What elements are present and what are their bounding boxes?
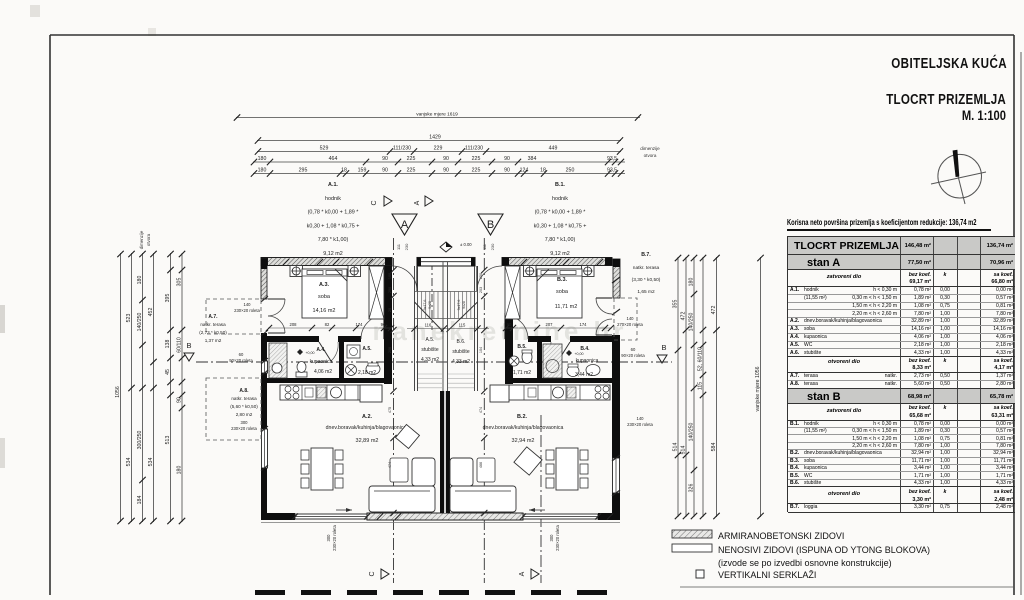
- svg-text:9x17,6: 9x17,6: [457, 300, 461, 311]
- svg-text:270×20 roleta: 270×20 roleta: [617, 322, 643, 327]
- opening ticks top wall B: [521, 259, 527, 265]
- window pier boxes with markers top wall A: [290, 266, 303, 277]
- terrace door B.7 double leaf: [596, 297, 612, 299]
- svg-text:7,80 * k1,00): 7,80 * k1,00): [545, 237, 576, 243]
- door into bath A.4: [319, 342, 331, 361]
- svg-text:523: 523: [126, 314, 132, 323]
- svg-text:+0,00: +0,00: [305, 351, 314, 355]
- svg-text:11,71 m2: 11,71 m2: [555, 304, 578, 310]
- svg-text:natkr. terasa: natkr. terasa: [231, 396, 257, 401]
- wall A.4/A.5 divider: [339, 342, 344, 382]
- svg-text:18: 18: [540, 167, 546, 173]
- svg-text:138: 138: [165, 340, 171, 349]
- svg-text:9,12 m2: 9,12 m2: [323, 251, 342, 257]
- svg-text:k0,30 + 1,08 * k0,75 +: k0,30 + 1,08 * k0,75 +: [534, 223, 587, 229]
- svg-text:B.2.: B.2.: [517, 414, 528, 420]
- left wall segments: [261, 259, 267, 299]
- svg-text:A.7.: A.7.: [208, 314, 218, 320]
- svg-text:534: 534: [126, 458, 132, 467]
- wardrobe A: [369, 266, 384, 319]
- window left wall bathroom: [262, 361, 268, 373]
- svg-text:60: 60: [631, 347, 636, 352]
- stair middle spine wall: [442, 262, 444, 391]
- svg-text:2,18 m2: 2,18 m2: [358, 370, 376, 376]
- svg-text:1056: 1056: [115, 386, 121, 398]
- svg-text:111/230: 111/230: [465, 145, 483, 151]
- svg-text:stubište: stubište: [452, 349, 469, 355]
- svg-text:90: 90: [504, 167, 510, 173]
- svg-text:hodnik: hodnik: [325, 196, 341, 202]
- svg-text:93,5: 93,5: [607, 156, 617, 162]
- title TLOCRT PRIZEMLJA: [886, 91, 1006, 108]
- svg-text:449: 449: [549, 145, 558, 151]
- terrace A.8 dashed outline: [206, 378, 261, 440]
- svg-text:140/250: 140/250: [689, 313, 695, 332]
- svg-text:466: 466: [479, 462, 483, 468]
- svg-text:250: 250: [479, 273, 483, 279]
- svg-text:90: 90: [443, 156, 449, 162]
- bottom wall concrete hatched: [367, 513, 523, 520]
- svg-text:90: 90: [382, 167, 388, 173]
- svg-text:384: 384: [528, 156, 537, 162]
- terrace door A.7 double leaf: [268, 298, 285, 300]
- bottom heavy dashed bar (next drawing cut): [255, 590, 618, 595]
- svg-text:395: 395: [165, 294, 171, 303]
- terrace A.7 dashed outline: [206, 299, 261, 334]
- toilet A.5: [366, 364, 380, 375]
- svg-text:A: A: [414, 200, 421, 205]
- svg-text:514: 514: [681, 446, 687, 455]
- bottom wall: [261, 513, 295, 520]
- svg-text:230: 230: [404, 243, 409, 250]
- svg-text:174: 174: [580, 322, 588, 327]
- svg-text:206: 206: [388, 347, 392, 353]
- svg-text:dnev.boravak/kuhinja/blagovaon: dnev.boravak/kuhinja/blagovaonica: [326, 425, 407, 431]
- svg-text:otvora: otvora: [644, 153, 657, 158]
- svg-text:230×20 roleta: 230×20 roleta: [332, 524, 337, 550]
- legend underline: [680, 586, 1014, 588]
- svg-text:B: B: [186, 341, 191, 350]
- svg-text:326: 326: [689, 484, 695, 493]
- washbasin A.5: [346, 365, 357, 376]
- washbasin A.4: [272, 363, 282, 373]
- compass north arrow: [931, 150, 986, 204]
- svg-text:4,06 m2: 4,06 m2: [314, 369, 332, 375]
- svg-text:472: 472: [711, 306, 717, 315]
- svg-text:90: 90: [507, 322, 512, 327]
- svg-text:174: 174: [356, 322, 364, 327]
- top wall unit B (ytong hatched): [502, 258, 612, 266]
- svg-text:207: 207: [546, 322, 554, 327]
- svg-text:(3,30 * k0,50): (3,30 * k0,50): [632, 277, 661, 283]
- svg-text:230: 230: [490, 243, 495, 250]
- svg-text:vanjske mjere 1056: vanjske mjere 1056: [755, 366, 761, 411]
- svg-text:90: 90: [177, 397, 183, 403]
- svg-text:300: 300: [326, 534, 331, 542]
- centre axis porch: [431, 262, 433, 330]
- legend swatch vertikalni serklazi: [696, 570, 704, 578]
- dimension line 180/464/90/225/90/225/90/384: [253, 161, 625, 163]
- svg-text:dnev.boravak/kuhinja/blagovaon: dnev.boravak/kuhinja/blagovaonica: [483, 425, 564, 431]
- svg-text:1,65 m2: 1,65 m2: [637, 289, 655, 295]
- svg-text:A.5.: A.5.: [362, 346, 372, 352]
- window left wall living: [262, 429, 268, 468]
- svg-text:90: 90: [504, 156, 510, 162]
- korisna neto headline: [787, 217, 991, 231]
- svg-text:(0,78 * k0,00 + 1,89 *: (0,78 * k0,00 + 1,89 *: [308, 210, 360, 216]
- window right wall living: [613, 458, 620, 493]
- interior wall B soba/bath: [528, 336, 551, 342]
- svg-text:dimenzije: dimenzije: [640, 146, 660, 151]
- bottom sliding window B: [523, 514, 598, 519]
- bathroom bottom wall B: [505, 378, 612, 383]
- ticks along section verticals: [390, 267, 396, 273]
- sofa A: [369, 486, 435, 512]
- svg-text:A: A: [401, 219, 409, 231]
- svg-text:90×20 roleta: 90×20 roleta: [229, 358, 253, 363]
- svg-text:180: 180: [137, 276, 143, 285]
- level marker A.4: [297, 349, 303, 355]
- legend swatch nenosivi: [672, 544, 712, 552]
- wall rooms/corridor A vertical: [384, 266, 392, 384]
- shower B (centre, dotted): [543, 344, 562, 378]
- page frame border: [50, 34, 1014, 36]
- svg-text:472: 472: [681, 312, 687, 321]
- sofa B: [450, 486, 516, 512]
- level marker B.4: [566, 350, 572, 356]
- door soba B (from hodnik): [504, 313, 506, 339]
- svg-text:230×20 roleta: 230×20 roleta: [231, 426, 257, 431]
- top wall unit A (ytong hatched): [261, 258, 392, 266]
- svg-text:(0,78 * k0,00 + 1,89 *: (0,78 * k0,00 + 1,89 *: [535, 210, 587, 216]
- interior dim row B: [505, 327, 612, 329]
- dimension line: vanjske mjere 1619: [236, 117, 640, 119]
- entrance door B: [476, 266, 478, 291]
- stair lower faint treads: [418, 374, 474, 388]
- svg-text:300: 300: [549, 534, 554, 542]
- svg-text:9x17,6: 9x17,6: [423, 300, 427, 311]
- svg-text:82: 82: [325, 322, 330, 327]
- svg-text:k0,30 + 1,08 * k0,75 +: k0,30 + 1,08 * k0,75 +: [307, 223, 360, 229]
- svg-text:A: A: [519, 571, 526, 576]
- svg-text:natkr. terasa: natkr. terasa: [633, 265, 660, 271]
- svg-text:140/250: 140/250: [689, 423, 695, 442]
- svg-text:180: 180: [177, 466, 183, 475]
- dimension line 1429: [257, 140, 621, 142]
- wardrobe B: [505, 266, 520, 319]
- svg-text:116: 116: [425, 323, 432, 328]
- svg-text:225: 225: [407, 167, 416, 173]
- svg-text:180: 180: [258, 156, 267, 162]
- title M 1:100: [962, 108, 1006, 123]
- svg-text:dimenzije: dimenzije: [139, 230, 144, 249]
- svg-text:230×20 roleta: 230×20 roleta: [234, 308, 260, 313]
- svg-text:natkr. terasa: natkr. terasa: [200, 322, 226, 327]
- bathroom bottom wall A: [267, 378, 392, 383]
- svg-text:159: 159: [358, 167, 367, 173]
- svg-text:140: 140: [627, 316, 635, 321]
- svg-text:18: 18: [341, 167, 347, 173]
- svg-text:529: 529: [320, 145, 329, 151]
- section triangle A: [392, 214, 417, 235]
- washer box A.5: [347, 345, 360, 358]
- kitchen counter B: [509, 385, 610, 400]
- svg-text:7,80 * k1,00): 7,80 * k1,00): [318, 237, 349, 243]
- svg-text:90: 90: [443, 167, 449, 173]
- svg-text:B.3.: B.3.: [557, 277, 568, 283]
- svg-text:534: 534: [148, 458, 154, 467]
- bed A.3: [302, 269, 347, 318]
- svg-text:1,71 m2: 1,71 m2: [513, 370, 531, 376]
- svg-text:474: 474: [479, 407, 483, 413]
- section line A vertical: [483, 238, 485, 583]
- door into bath B.4: [558, 342, 570, 361]
- svg-text:60/110: 60/110: [177, 337, 183, 353]
- svg-text:A.1.: A.1.: [328, 182, 338, 188]
- washbasin B.5: [509, 356, 519, 366]
- svg-text:208: 208: [290, 322, 298, 327]
- svg-text:B: B: [487, 219, 494, 231]
- svg-text:180: 180: [689, 278, 695, 287]
- party wall between units: [440, 391, 450, 513]
- toilet B.4: [567, 366, 579, 377]
- bottom sliding window A: [295, 514, 367, 519]
- svg-text:(2,73 * k0,50): (2,73 * k0,50): [199, 330, 227, 335]
- svg-text:soba: soba: [556, 289, 569, 295]
- svg-text:B.5.: B.5.: [517, 344, 527, 350]
- svg-text:A.3.: A.3.: [319, 282, 330, 288]
- toilet A.4: [296, 372, 307, 377]
- svg-text:A.4.: A.4.: [316, 347, 326, 353]
- svg-text:111/230: 111/230: [393, 145, 411, 151]
- wall rooms/corridor B vertical: [505, 266, 513, 384]
- opening ticks right wall: [612, 277, 620, 283]
- svg-text:stubište: stubište: [421, 347, 438, 353]
- svg-text:115: 115: [698, 382, 704, 390]
- svg-text:300: 300: [241, 420, 249, 425]
- svg-text:vanjske mjere 1619: vanjske mjere 1619: [416, 111, 458, 117]
- svg-text:305: 305: [177, 278, 183, 287]
- svg-text:250: 250: [566, 167, 575, 173]
- door soba A (from hodnik): [383, 313, 385, 339]
- svg-text:124: 124: [520, 167, 529, 173]
- stair dim line mid: [407, 328, 489, 330]
- svg-text:B.4.: B.4.: [580, 346, 590, 352]
- kitchen counter A: [280, 385, 382, 400]
- dining table A: [311, 448, 333, 490]
- svg-text:111: 111: [396, 243, 401, 250]
- svg-text:9x28: 9x28: [462, 301, 466, 309]
- svg-text:184: 184: [137, 496, 143, 505]
- svg-text:225: 225: [407, 156, 416, 162]
- interior dim row A: [268, 327, 392, 329]
- stairwell east wall (thin): [474, 266, 476, 391]
- stair treads band (vertical risers): [418, 292, 471, 319]
- svg-text:140: 140: [637, 416, 645, 421]
- dimension line 180/295/18/159/...: [253, 173, 625, 175]
- entrance door A: [416, 266, 418, 291]
- svg-text:452: 452: [148, 308, 154, 317]
- svg-text:104: 104: [479, 347, 483, 353]
- svg-text:514: 514: [673, 443, 679, 452]
- armchair tilted A: [396, 425, 420, 449]
- svg-text:B.7.: B.7.: [641, 252, 651, 258]
- svg-text:kupaonica: kupaonica: [576, 358, 599, 364]
- svg-text:2,80 m2: 2,80 m2: [236, 412, 253, 417]
- svg-text:otvora: otvora: [146, 233, 151, 246]
- svg-text:90: 90: [381, 322, 386, 327]
- stairwell west wall (thin): [414, 266, 416, 391]
- opening ticks bottom wall: [292, 513, 298, 519]
- svg-text:kupaonica: kupaonica: [310, 359, 333, 365]
- svg-text:A.8.: A.8.: [239, 388, 249, 394]
- title OBITELJSKA KUCA: [891, 55, 1007, 72]
- svg-text:60: 60: [239, 352, 244, 357]
- svg-text:9x28: 9x28: [428, 301, 432, 309]
- svg-text:(5,60 * k0,50): (5,60 * k0,50): [230, 404, 258, 409]
- svg-text:475: 475: [388, 407, 392, 413]
- svg-text:OBITELJSKA KUĆA: OBITELJSKA KUĆA: [891, 55, 1007, 72]
- svg-text:300/250: 300/250: [137, 431, 143, 450]
- svg-text:225: 225: [472, 156, 481, 162]
- opening ticks left wall: [261, 296, 268, 302]
- terrace B.7 dashed outline: [614, 298, 637, 340]
- svg-text:355: 355: [673, 300, 679, 309]
- svg-text:A.5.: A.5.: [426, 337, 435, 343]
- svg-text:52, 60/110: 52, 60/110: [698, 347, 704, 371]
- svg-text:140/250: 140/250: [137, 313, 143, 332]
- sliding door arrow A: [336, 509, 352, 511]
- interior wall A soba/bath: [267, 336, 319, 342]
- svg-text:93,5: 93,5: [607, 167, 617, 173]
- shower A.4: [269, 343, 287, 378]
- dining table B: [556, 448, 578, 490]
- svg-text:32,94 m2: 32,94 m2: [512, 438, 535, 444]
- svg-text:20: 20: [388, 308, 392, 312]
- section line C vertical: [393, 238, 395, 583]
- washbasin B.4: [586, 365, 600, 376]
- svg-text:230×20 roleta: 230×20 roleta: [555, 524, 560, 550]
- section line B horizontal: [196, 361, 672, 363]
- right dimension lines cluster: [677, 257, 679, 517]
- toilet B.5: [522, 351, 532, 364]
- svg-text:584: 584: [711, 443, 717, 452]
- svg-text:225: 225: [472, 167, 481, 173]
- svg-text:474: 474: [388, 462, 392, 468]
- level marker 0.00: [440, 242, 452, 252]
- svg-text:1,37 m2: 1,37 m2: [205, 338, 222, 343]
- svg-text:B.6.: B.6.: [457, 339, 466, 345]
- svg-text:45: 45: [165, 369, 171, 375]
- svg-text:M. 1:100: M. 1:100: [962, 108, 1006, 123]
- svg-text:140: 140: [244, 302, 252, 307]
- stair cut V diagonals: [415, 302, 444, 332]
- svg-text:115: 115: [459, 323, 466, 328]
- bed B.3: [537, 269, 582, 318]
- svg-text:B: B: [661, 343, 666, 352]
- svg-text:C: C: [369, 571, 376, 576]
- svg-text:90: 90: [382, 156, 388, 162]
- svg-text:1429: 1429: [429, 134, 441, 140]
- svg-text:180: 180: [258, 167, 267, 173]
- svg-text:295: 295: [299, 167, 308, 173]
- svg-text:+0,00: +0,00: [574, 352, 583, 356]
- scan smudges left edge: [0, 305, 5, 333]
- sliding door arrow B: [529, 509, 545, 511]
- svg-text:32,89 m2: 32,89 m2: [356, 438, 379, 444]
- svg-text:14,16 m2: 14,16 m2: [313, 308, 336, 314]
- svg-text:3,44 m2: 3,44 m2: [575, 372, 593, 378]
- svg-text:± 0.00: ± 0.00: [460, 242, 472, 247]
- svg-text:513: 513: [165, 436, 171, 445]
- svg-text:C: C: [371, 200, 378, 205]
- opening ticks top wall A: [283, 259, 289, 265]
- area table: [787, 236, 1014, 512]
- svg-text:4,33 m2: 4,33 m2: [452, 359, 470, 365]
- window pier boxes with markers top wall B: [524, 266, 537, 277]
- svg-text:229: 229: [434, 145, 443, 151]
- svg-text:TLOCRT PRIZEMLJA: TLOCRT PRIZEMLJA: [886, 91, 1006, 108]
- svg-text:4,33 m2: 4,33 m2: [421, 357, 439, 363]
- svg-text:230×20 roleta: 230×20 roleta: [627, 422, 653, 427]
- svg-text:203: 203: [479, 287, 483, 293]
- svg-text:A.2.: A.2.: [362, 414, 373, 420]
- legend texts: [718, 531, 844, 541]
- armchair tilted B: [514, 447, 542, 475]
- svg-text:90×20 roleta: 90×20 roleta: [621, 353, 645, 358]
- porch glazed wall: [417, 258, 475, 267]
- svg-text:soba: soba: [318, 294, 331, 300]
- legend swatch armiranobetonski: [672, 530, 712, 538]
- svg-text:B.1.: B.1.: [555, 182, 565, 188]
- dimension line 529/111230/229/111230/449: [257, 151, 621, 153]
- section triangle B: [478, 214, 503, 235]
- svg-text:290: 290: [388, 287, 392, 293]
- svg-text:hodnik: hodnik: [552, 196, 568, 202]
- svg-text:100: 100: [388, 273, 392, 279]
- pavement line below bottom wall: [261, 522, 620, 524]
- right wall segments: [613, 259, 620, 298]
- section line vertical right lower: [540, 415, 542, 583]
- wall B.4/B.5 divider: [537, 342, 542, 382]
- svg-text:464: 464: [329, 156, 338, 162]
- svg-text:9,12 m2: 9,12 m2: [550, 251, 569, 257]
